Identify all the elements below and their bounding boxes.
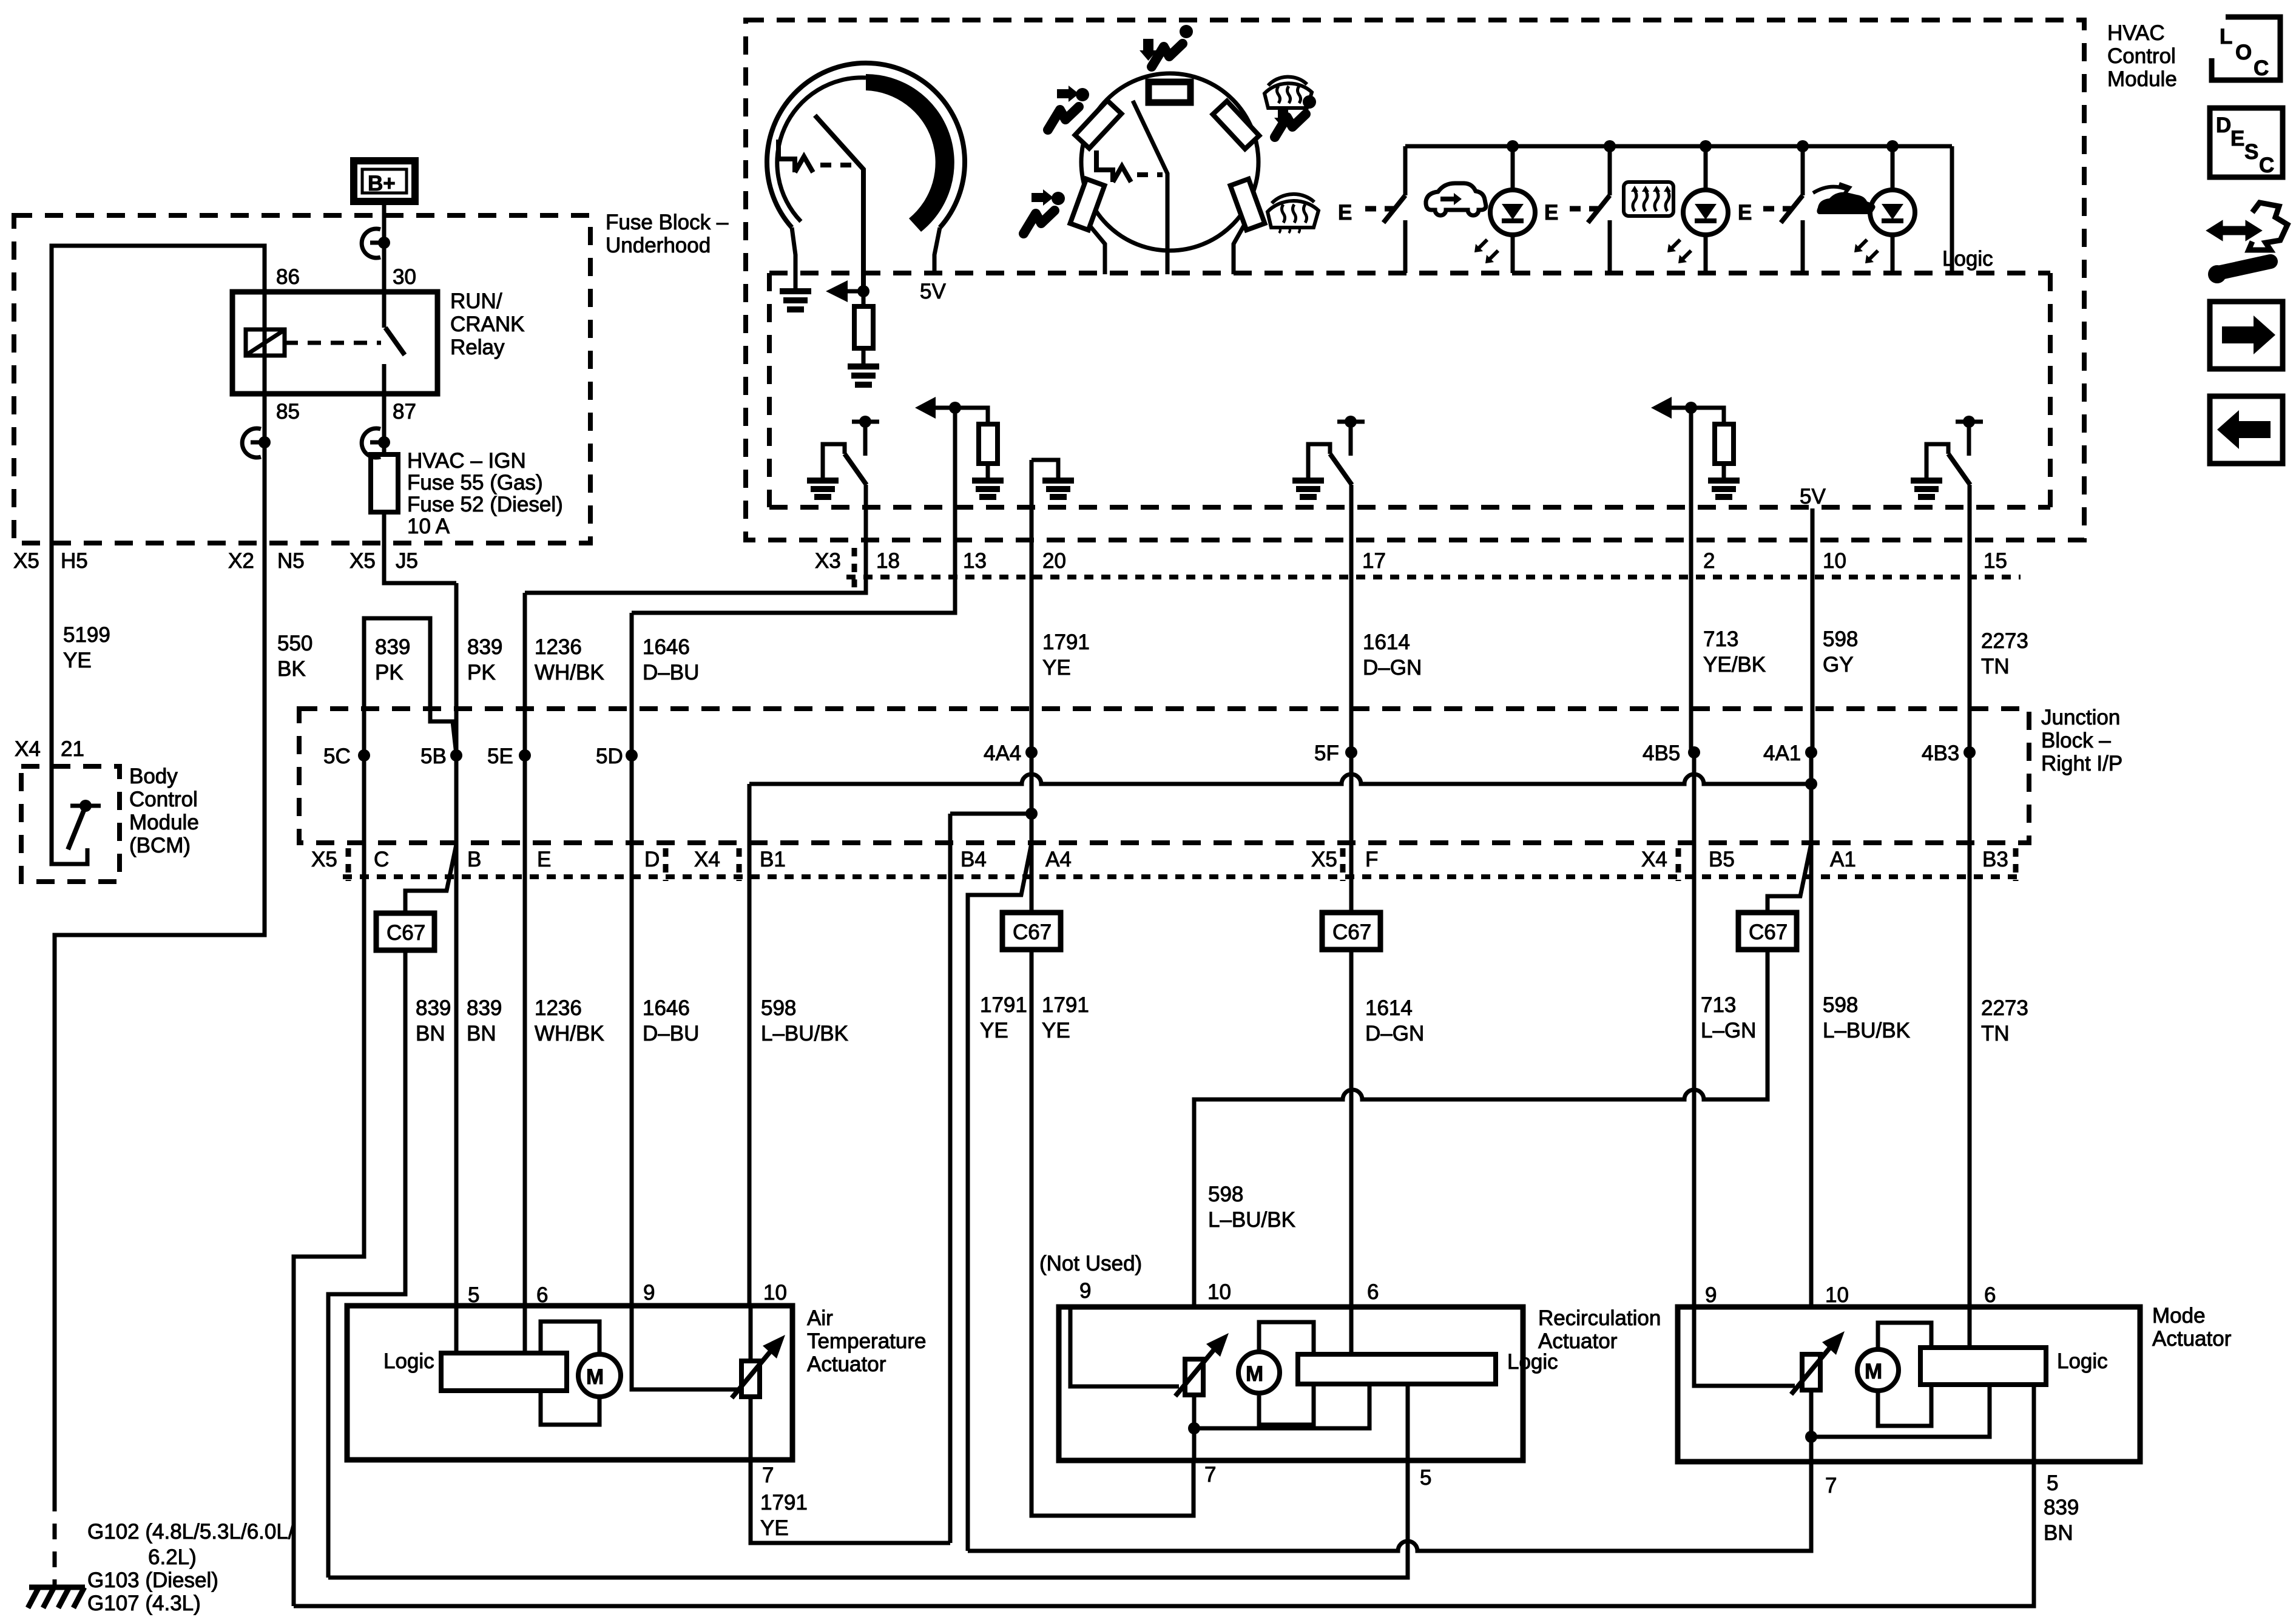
svg-text:D: D xyxy=(644,848,660,871)
mode selector wiper link symbol xyxy=(1096,150,1113,182)
svg-text:Underhood: Underhood xyxy=(606,234,711,257)
svg-text:Mode: Mode xyxy=(2152,1304,2206,1328)
wire B5 column down to mode pin 9 xyxy=(1692,752,1697,1307)
ground under wiper resistor xyxy=(848,366,879,385)
svg-text:Block –: Block – xyxy=(2041,729,2111,752)
mode selector upper-left contact xyxy=(1075,101,1122,149)
svg-text:Actuator: Actuator xyxy=(807,1352,886,1376)
mode icon lower-right: defrost fan xyxy=(1268,194,1319,233)
wire relay 85 down (550 BK) xyxy=(55,394,265,1496)
svg-text:17: 17 xyxy=(1362,549,1386,573)
svg-text:D–BU: D–BU xyxy=(643,1022,699,1045)
svg-text:M: M xyxy=(1865,1360,1882,1383)
svg-text:E: E xyxy=(1738,201,1752,224)
forward arrow box xyxy=(2210,302,2283,369)
svg-text:Logic: Logic xyxy=(1507,1350,1558,1374)
logic box xyxy=(441,1353,567,1391)
svg-text:1614: 1614 xyxy=(1363,630,1410,654)
mode selector left leg xyxy=(1090,226,1105,274)
svg-text:9: 9 xyxy=(1705,1283,1717,1307)
svg-text:HVAC: HVAC xyxy=(2107,21,2165,45)
svg-text:550: 550 xyxy=(277,632,312,655)
wire 18 to E column (1236 WH/BK) xyxy=(523,593,527,1306)
icon heated rear window xyxy=(1624,182,1673,216)
svg-text:YE: YE xyxy=(1042,1019,1070,1042)
node 5D junction dot xyxy=(626,749,638,761)
LED 3 xyxy=(1854,146,1915,273)
wire C column down (839 BN) xyxy=(294,755,364,1606)
svg-text:10: 10 xyxy=(1825,1283,1849,1307)
motor loop xyxy=(1259,1322,1314,1354)
svg-text:YE/BK: YE/BK xyxy=(1703,653,1766,677)
svg-text:L: L xyxy=(2220,25,2232,49)
svg-text:X4: X4 xyxy=(15,737,41,761)
svg-text:C67: C67 xyxy=(1332,920,1371,944)
svg-text:E: E xyxy=(537,848,551,871)
logic box xyxy=(1298,1354,1496,1384)
svg-text:BN: BN xyxy=(416,1022,445,1045)
svg-text:6.2L): 6.2L) xyxy=(148,1545,197,1569)
svg-text:C: C xyxy=(2254,56,2269,80)
temperature knob inner arc xyxy=(777,78,866,221)
switch 2 (rear defog) xyxy=(1544,146,1610,273)
svg-text:1236: 1236 xyxy=(535,996,582,1020)
svg-text:6: 6 xyxy=(1367,1280,1379,1304)
wire below C67 #2 to recirc pin7 xyxy=(1032,950,1194,1516)
Fuse Block - Underhood dashed box xyxy=(14,215,590,543)
junction bottom connector fine dashes xyxy=(343,874,2021,879)
mode icon top: seat person with down arrow xyxy=(1140,25,1193,67)
temperature knob left leg to ground xyxy=(792,228,795,290)
svg-text:13: 13 xyxy=(963,549,987,573)
svg-text:5D: 5D xyxy=(596,744,623,768)
svg-text:5C: 5C xyxy=(323,744,351,768)
Body Control Module dashed box xyxy=(21,766,120,882)
pin 5 from logic xyxy=(1406,1384,1410,1460)
potentiometer xyxy=(1185,1359,1203,1395)
node 5B junction dot xyxy=(450,749,462,761)
svg-text:5: 5 xyxy=(2047,1471,2058,1495)
svg-text:G102 (4.8L/5.3L/6.0L/: G102 (4.8L/5.3L/6.0L/ xyxy=(87,1520,294,1544)
svg-text:X4: X4 xyxy=(694,848,720,871)
svg-text:Relay: Relay xyxy=(450,336,505,359)
svg-text:7: 7 xyxy=(1204,1463,1216,1487)
temperature knob wiper link symbol xyxy=(778,140,795,172)
svg-text:85: 85 xyxy=(276,400,300,424)
svg-text:L–BU/BK: L–BU/BK xyxy=(1208,1208,1295,1232)
svg-text:HVAC – IGN: HVAC – IGN xyxy=(407,449,526,473)
svg-text:6: 6 xyxy=(536,1283,548,1307)
junction dot to logic xyxy=(1188,1422,1200,1434)
svg-text:4A1: 4A1 xyxy=(1763,741,1801,765)
svg-text:87: 87 xyxy=(393,400,416,424)
svg-text:5E: 5E xyxy=(487,744,513,768)
svg-text:1791: 1791 xyxy=(760,1491,808,1514)
svg-text:86: 86 xyxy=(276,265,300,289)
wire below C67 #4: 598 L-BU/BK branch to recirc pin 10 xyxy=(1194,950,1768,1307)
pin 5 from logic xyxy=(2032,1385,2036,1462)
bus junction dots xyxy=(1507,140,1519,152)
svg-text:2273: 2273 xyxy=(1981,996,2028,1020)
svg-text:S: S xyxy=(2244,140,2258,164)
svg-text:A1: A1 xyxy=(1830,848,1856,871)
svg-text:Body: Body xyxy=(129,765,178,788)
svg-text:B4: B4 xyxy=(961,848,987,871)
mode selector right leg xyxy=(1234,226,1244,274)
relay switch blade xyxy=(382,204,387,328)
svg-text:2: 2 xyxy=(1703,549,1715,573)
HVAC Control Module outer dashed box xyxy=(746,20,2084,540)
svg-text:9: 9 xyxy=(643,1281,655,1305)
svg-text:Air: Air xyxy=(807,1306,833,1330)
pin 5 wire into logic xyxy=(454,1306,459,1353)
svg-text:Recirculation: Recirculation xyxy=(1538,1306,1661,1330)
svg-text:839: 839 xyxy=(467,996,502,1020)
wiper output junction dot xyxy=(857,285,869,297)
wiper arrow xyxy=(1175,1349,1214,1396)
svg-text:Module: Module xyxy=(2107,67,2177,91)
svg-text:1791: 1791 xyxy=(980,993,1027,1017)
svg-text:TN: TN xyxy=(1981,655,2010,678)
svg-text:B5: B5 xyxy=(1709,848,1735,871)
svg-text:598: 598 xyxy=(1823,627,1858,651)
svg-text:5199: 5199 xyxy=(63,623,110,647)
svg-text:5: 5 xyxy=(468,1283,479,1307)
svg-text:4B3: 4B3 xyxy=(1922,741,1959,765)
logic inner dashed box xyxy=(767,273,772,507)
svg-text:9: 9 xyxy=(1079,1279,1091,1303)
wire relay 87 down to fuse xyxy=(382,394,387,454)
svg-text:YE: YE xyxy=(760,1516,789,1540)
connector C67 #3 xyxy=(1322,913,1380,950)
svg-text:BN: BN xyxy=(2044,1521,2073,1545)
svg-text:Fuse Block –: Fuse Block – xyxy=(606,211,729,234)
wire A4 branch jog xyxy=(968,843,1032,1551)
svg-text:1791: 1791 xyxy=(1042,993,1089,1017)
mode icon left: person with arrow xyxy=(1024,189,1065,234)
motor loop xyxy=(541,1322,599,1354)
svg-text:5: 5 xyxy=(1420,1466,1431,1490)
svg-text:4B5: 4B5 xyxy=(1643,741,1680,765)
indicator bus xyxy=(1405,144,1952,149)
svg-text:C67: C67 xyxy=(387,921,425,945)
839 PK jumper loop 5C-5B xyxy=(364,618,456,755)
wire F column through C67 #3 xyxy=(1349,752,1354,913)
svg-text:A4: A4 xyxy=(1045,848,1072,871)
junction dot to logic xyxy=(1805,1431,1817,1443)
junction B4 link xyxy=(950,812,1032,816)
relay coil xyxy=(246,329,285,356)
switch 1 (recirculation) xyxy=(1338,146,1405,273)
svg-text:6: 6 xyxy=(1984,1283,1996,1307)
svg-text:YE: YE xyxy=(63,649,92,672)
mode selector lower-left contact xyxy=(1070,179,1105,230)
svg-text:5F: 5F xyxy=(1314,741,1339,765)
relay dashed link xyxy=(285,341,381,345)
svg-text:L–BU/BK: L–BU/BK xyxy=(1823,1019,1910,1042)
svg-text:2273: 2273 xyxy=(1981,629,2028,653)
svg-text:Fuse 52 (Diesel): Fuse 52 (Diesel) xyxy=(407,493,563,516)
svg-text:(Not Used): (Not Used) xyxy=(1039,1252,1142,1275)
pin 10 5V source xyxy=(1800,485,1826,752)
node 5F junction dot xyxy=(1345,746,1357,758)
mode selector lower-right contact xyxy=(1231,179,1265,230)
mode icon upper-left: person with arrow xyxy=(1048,86,1089,130)
pin 18 driver switch xyxy=(525,416,879,593)
temperature knob outer arc xyxy=(767,63,965,228)
svg-text:B+: B+ xyxy=(368,172,396,195)
icon A/C car silhouette xyxy=(1817,192,1875,214)
svg-text:10: 10 xyxy=(763,1281,787,1305)
svg-text:4A4: 4A4 xyxy=(984,741,1021,765)
svg-text:(BCM): (BCM) xyxy=(129,834,191,857)
svg-text:Module: Module xyxy=(129,811,199,834)
battery B+ symbol xyxy=(354,161,415,201)
svg-text:1791: 1791 xyxy=(1042,630,1090,654)
motor M xyxy=(578,1354,621,1397)
DESC icon box xyxy=(2210,108,2283,177)
wiper pulldown resistor xyxy=(862,291,866,306)
wire relay 86 up-left to H5 xyxy=(52,246,265,540)
svg-text:1646: 1646 xyxy=(643,996,690,1020)
svg-text:O: O xyxy=(2235,41,2252,64)
wiper arrow xyxy=(732,1351,771,1398)
svg-text:5V: 5V xyxy=(920,280,946,303)
pin 20 ground reference xyxy=(1032,460,1074,752)
wire A1 branch jog to C67 #4 xyxy=(1768,843,1811,913)
svg-text:L–GN: L–GN xyxy=(1701,1019,1756,1042)
svg-text:X5: X5 xyxy=(1311,848,1337,871)
ground G102/G103/G107 chassis symbol xyxy=(28,1587,85,1608)
svg-text:M: M xyxy=(1246,1362,1263,1386)
svg-text:PK: PK xyxy=(375,661,403,684)
svg-text:839: 839 xyxy=(467,635,502,659)
wire H5 down to BCM xyxy=(52,540,87,864)
icon recirculation car xyxy=(1426,183,1486,215)
node 5E junction dot xyxy=(519,749,531,761)
svg-text:D: D xyxy=(2216,113,2231,137)
svg-text:X5: X5 xyxy=(13,549,39,573)
svg-text:X2: X2 xyxy=(228,549,254,573)
temperature knob right leg 5V xyxy=(934,228,940,273)
svg-text:10 A: 10 A xyxy=(407,515,450,538)
node 4A4 junction dot xyxy=(1025,746,1038,758)
svg-text:B1: B1 xyxy=(760,848,786,871)
svg-text:YE: YE xyxy=(1042,656,1071,680)
svg-text:E: E xyxy=(1544,201,1558,224)
svg-text:598: 598 xyxy=(1208,1183,1243,1206)
svg-text:E: E xyxy=(1338,201,1352,224)
wire fuse to J5 xyxy=(384,512,456,583)
temperature knob thick resistive crescent xyxy=(866,74,954,232)
svg-text:10: 10 xyxy=(1207,1280,1231,1304)
svg-text:E: E xyxy=(2230,127,2244,150)
svg-text:G103 (Diesel): G103 (Diesel) xyxy=(87,1568,218,1592)
wire B1 column down (598 L-BU/BK) xyxy=(748,784,752,1306)
svg-text:N5: N5 xyxy=(277,549,305,573)
wire A4 column down through C67 xyxy=(1030,752,1034,913)
back arrow box xyxy=(2210,396,2283,464)
svg-text:Junction: Junction xyxy=(2041,706,2120,729)
connector separators xyxy=(346,848,351,881)
svg-text:713: 713 xyxy=(1703,627,1738,651)
svg-text:30: 30 xyxy=(393,265,416,289)
temperature knob wiper arm xyxy=(815,115,863,291)
pin 9 stub xyxy=(1070,1307,1179,1386)
wire A1 column down to mode pin 10 xyxy=(1809,752,1814,1307)
svg-text:J5: J5 xyxy=(396,549,418,573)
svg-text:20: 20 xyxy=(1042,549,1066,573)
LOC icon box xyxy=(2212,17,2280,80)
pin 9 wire to wiper xyxy=(1694,1307,1795,1386)
svg-text:WH/BK: WH/BK xyxy=(535,661,604,684)
svg-text:18: 18 xyxy=(876,549,900,573)
svg-text:C67: C67 xyxy=(1013,920,1052,944)
svg-text:839: 839 xyxy=(2044,1496,2079,1519)
svg-text:1614: 1614 xyxy=(1365,996,1413,1020)
svg-text:5V: 5V xyxy=(1800,485,1826,508)
svg-text:BK: BK xyxy=(277,657,306,681)
svg-text:598: 598 xyxy=(1823,993,1858,1017)
svg-text:X4: X4 xyxy=(1641,848,1667,871)
svg-text:839: 839 xyxy=(416,996,451,1020)
svg-text:B3: B3 xyxy=(1982,848,2008,871)
wire B4 column down xyxy=(948,814,953,1543)
wire 550 BK dashed lower part to ground xyxy=(53,1496,57,1587)
svg-text:PK: PK xyxy=(467,661,496,684)
wiper signal arrow to logic xyxy=(848,289,863,294)
pin 9 wire to wiper xyxy=(632,1306,738,1389)
svg-text:Control: Control xyxy=(2107,44,2176,68)
svg-text:CRANK: CRANK xyxy=(450,312,525,336)
potentiometer resistor xyxy=(749,1306,753,1361)
connector C67 #1 xyxy=(376,913,434,950)
fuse HVAC-IGN xyxy=(371,454,398,512)
svg-text:Logic: Logic xyxy=(383,1349,434,1373)
connector hook pin 87 xyxy=(362,428,390,457)
wire below C67 #3 to recirc pin 6 xyxy=(1349,950,1354,1354)
svg-text:D–BU: D–BU xyxy=(643,661,699,684)
svg-text:BN: BN xyxy=(467,1022,496,1045)
mode icon upper-right: defrost and person xyxy=(1264,77,1316,137)
logic box xyxy=(1920,1348,2046,1385)
tools icon (arrows + wrench) xyxy=(2207,203,2288,283)
svg-text:F: F xyxy=(1365,848,1378,871)
junction internal bus 4A4-4A1 with hops xyxy=(749,774,1811,784)
svg-text:1646: 1646 xyxy=(643,635,690,659)
RUN/CRANK relay box xyxy=(232,292,437,394)
svg-text:15: 15 xyxy=(1984,549,2007,573)
svg-text:C67: C67 xyxy=(1749,920,1788,944)
connector hook on B+ wire xyxy=(362,229,390,258)
pin 15 driver switch xyxy=(1911,416,1983,752)
svg-text:L–BU/BK: L–BU/BK xyxy=(761,1022,848,1045)
svg-text:C: C xyxy=(374,848,389,871)
motor loop xyxy=(1878,1323,1931,1348)
svg-text:GY: GY xyxy=(1823,653,1854,677)
wire J5/839 PK down column B xyxy=(454,583,459,1306)
pin 6 wire into logic xyxy=(523,1306,527,1353)
wire 13 to D column (1646 D-BU) xyxy=(630,613,634,1389)
svg-text:Actuator: Actuator xyxy=(2152,1327,2232,1351)
pin 17 driver switch xyxy=(1292,416,1365,752)
pin 2 driver sense resistor xyxy=(1651,397,1740,752)
svg-text:7: 7 xyxy=(1825,1474,1837,1497)
potentiometer xyxy=(1802,1354,1820,1390)
bus right end down xyxy=(1950,146,1954,273)
X3 separator xyxy=(852,548,857,587)
svg-text:5B: 5B xyxy=(420,744,447,768)
svg-text:839: 839 xyxy=(375,635,410,659)
svg-text:D–GN: D–GN xyxy=(1365,1022,1424,1045)
connector hook pin 85 xyxy=(242,428,271,457)
svg-text:X5: X5 xyxy=(311,848,337,871)
svg-text:X3: X3 xyxy=(815,549,841,573)
node 4B3 junction dot xyxy=(1963,746,1976,758)
svg-text:Temperature: Temperature xyxy=(807,1329,926,1353)
svg-text:G107 (4.3L): G107 (4.3L) xyxy=(87,1592,201,1615)
svg-text:Logic: Logic xyxy=(2057,1349,2108,1373)
svg-text:D–GN: D–GN xyxy=(1363,656,1422,680)
fine dashed connector line xyxy=(846,575,2021,579)
svg-text:1236: 1236 xyxy=(535,635,582,659)
svg-text:Control: Control xyxy=(129,788,198,811)
svg-text:RUN/: RUN/ xyxy=(450,289,502,313)
svg-text:713: 713 xyxy=(1701,993,1736,1017)
svg-text:598: 598 xyxy=(761,996,796,1020)
svg-text:21: 21 xyxy=(61,737,84,761)
wire below C67 #1 xyxy=(328,950,405,1578)
svg-text:X5: X5 xyxy=(349,549,376,573)
svg-text:TN: TN xyxy=(1981,1022,2010,1045)
node 5C junction dot xyxy=(358,749,370,761)
rail mode pin 5 to C column (839 BN) xyxy=(294,1462,2034,1606)
svg-text:M: M xyxy=(586,1365,604,1389)
mode selector circle xyxy=(1081,73,1258,251)
svg-text:C: C xyxy=(2259,154,2274,177)
pin 13 driver sense resistor xyxy=(632,397,1004,613)
mode selector upper-right contact xyxy=(1213,101,1260,149)
node 4B5 junction dot xyxy=(1688,746,1700,758)
switch 3 xyxy=(1738,146,1803,273)
svg-text:YE: YE xyxy=(980,1019,1008,1042)
svg-text:B: B xyxy=(467,848,481,871)
svg-text:10: 10 xyxy=(1823,549,1846,573)
ground under left leg xyxy=(780,291,811,309)
mode selector wiper arm xyxy=(1133,101,1167,274)
svg-text:Right I/P: Right I/P xyxy=(2041,752,2122,775)
LED 1 xyxy=(1474,146,1535,273)
LED 2 xyxy=(1667,146,1728,273)
wire B3 column down to mode pin 6 xyxy=(1968,752,1972,1348)
svg-text:H5: H5 xyxy=(61,549,88,573)
svg-text:Fuse 55 (Gas): Fuse 55 (Gas) xyxy=(407,471,543,495)
svg-text:WH/BK: WH/BK xyxy=(535,1022,604,1045)
mode selector top contact rect xyxy=(1149,82,1190,103)
svg-text:7: 7 xyxy=(762,1463,774,1487)
wire B branch to C67 xyxy=(405,845,456,913)
rail 1791 YE: B4/A4 jog to mode pin 7 with hop xyxy=(968,1462,1811,1551)
BCM internal switch xyxy=(68,800,101,849)
connector C67 #4 xyxy=(1738,913,1797,950)
connector C67 #2 xyxy=(1002,913,1061,950)
wiper arrow xyxy=(1791,1348,1830,1394)
node 4A1 junction dot xyxy=(1805,746,1817,758)
